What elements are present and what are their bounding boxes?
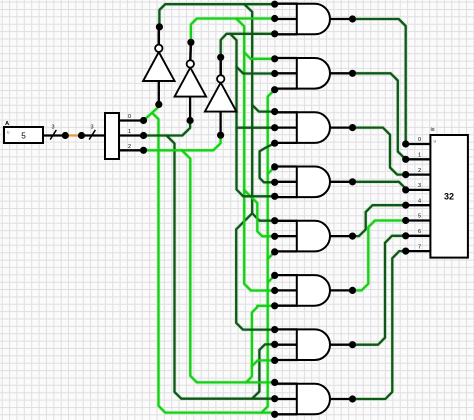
svg-text:4: 4 xyxy=(418,198,421,204)
svg-text:1: 1 xyxy=(418,153,421,159)
svg-text:32: 32 xyxy=(444,192,454,202)
svg-text:3: 3 xyxy=(51,125,54,131)
svg-text:5: 5 xyxy=(21,132,26,141)
svg-text:0: 0 xyxy=(128,114,131,120)
svg-text:6: 6 xyxy=(418,229,421,235)
svg-text:3: 3 xyxy=(418,183,421,189)
svg-text:5: 5 xyxy=(418,214,421,220)
svg-text:7: 7 xyxy=(418,244,421,250)
svg-text:2: 2 xyxy=(128,144,131,150)
svg-text:1: 1 xyxy=(128,129,131,135)
svg-text:2: 2 xyxy=(418,168,421,174)
svg-text:3: 3 xyxy=(90,125,93,131)
svg-text:is: is xyxy=(431,127,435,133)
svg-text:0: 0 xyxy=(418,137,421,143)
